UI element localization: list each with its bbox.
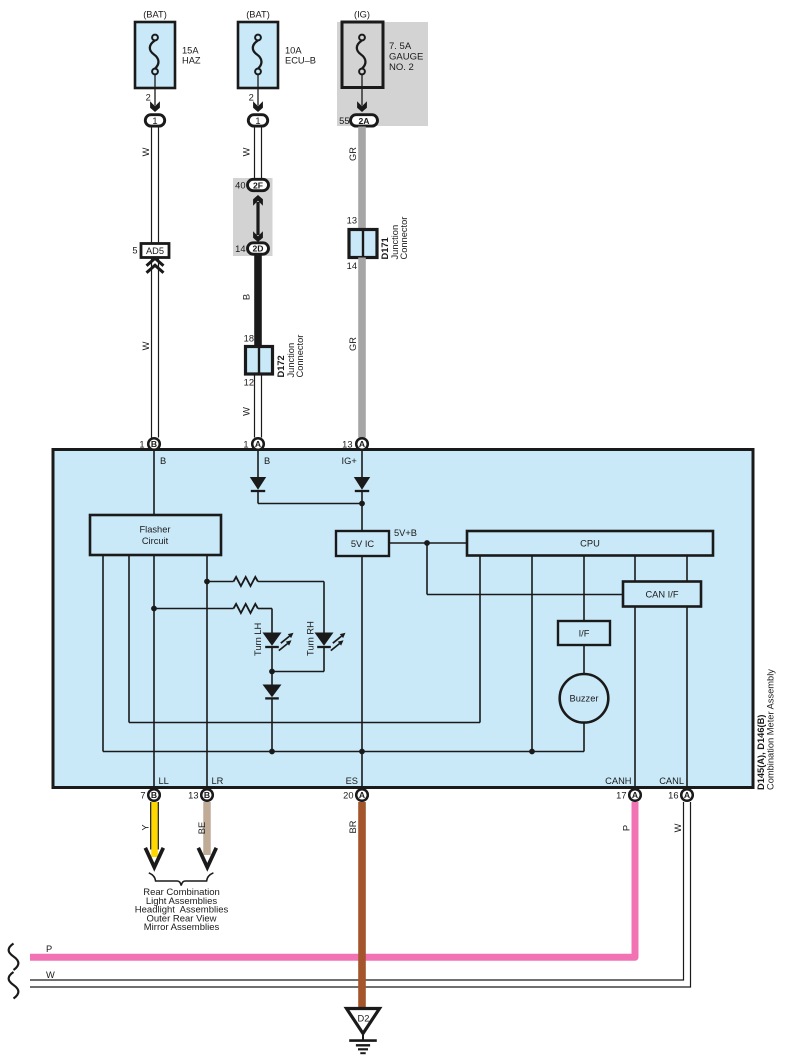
- svg-text:I/F: I/F: [579, 629, 590, 639]
- continuation squiggle W: [9, 972, 19, 999]
- diode D-IG: [354, 477, 370, 491]
- svg-text:5V+B: 5V+B: [394, 528, 417, 538]
- svg-text:13: 13: [347, 216, 357, 226]
- svg-text:BE: BE: [197, 822, 207, 834]
- connector 2D pin 14: [235, 243, 268, 254]
- svg-text:B: B: [160, 456, 166, 466]
- wire LEDs to diode D3: [272, 647, 324, 685]
- wire flasher to pin LL: [153, 555, 155, 787]
- shaded background IG circuit: [337, 22, 428, 126]
- resistor R-RH: [207, 577, 324, 633]
- flasher circuit block: [90, 515, 221, 555]
- svg-text:GAUGE: GAUGE: [389, 52, 423, 63]
- svg-text:A: A: [684, 790, 690, 800]
- svg-text:W: W: [141, 147, 151, 156]
- diode D3: [263, 685, 282, 699]
- svg-text:D145(A), D146(B): D145(A), D146(B): [756, 715, 766, 790]
- connector 2F pin 40: [235, 179, 268, 190]
- svg-text:B: B: [204, 790, 210, 800]
- svg-text:A: A: [359, 439, 365, 449]
- wire CPU to common bus: [531, 556, 533, 752]
- wire CPU to flasher return: [129, 555, 480, 723]
- svg-text:D2: D2: [358, 1014, 370, 1024]
- wire I/F to buzzer: [583, 645, 585, 674]
- connector cavity 2A pin 55: [339, 115, 377, 126]
- wire diode D-IG to 5V IC: [361, 491, 363, 531]
- svg-text:Circuit: Circuit: [142, 536, 169, 546]
- connector arrow into 1: [253, 101, 263, 112]
- wire GR from 2A to D171: [348, 127, 362, 231]
- svg-text:ES: ES: [346, 776, 358, 786]
- svg-text:14: 14: [235, 244, 245, 254]
- wire W from D172 to meter pin 1(A): [242, 374, 262, 438]
- CAN I/F block: [623, 582, 701, 607]
- LED Turn LH: [253, 623, 294, 656]
- shield chevrons below AD5: [147, 258, 164, 273]
- wire Y from pin LL: [141, 802, 159, 857]
- junction connector D172: [244, 334, 305, 388]
- pin 13(A) top: [342, 438, 368, 450]
- brace to assemblies: [149, 873, 214, 886]
- node ES-bus: [359, 749, 365, 755]
- wire label W lower column 1: [141, 341, 151, 350]
- wire CAN I/F to pin CANH: [634, 607, 636, 788]
- svg-text:W: W: [141, 341, 151, 350]
- node on 5V+B: [424, 540, 430, 546]
- svg-text:ECU–B: ECU–B: [285, 56, 316, 66]
- wire flasher to common bus (left): [103, 555, 584, 752]
- svg-text:13: 13: [188, 791, 198, 801]
- svg-text:5V IC: 5V IC: [351, 539, 375, 549]
- svg-text:HAZ: HAZ: [182, 56, 201, 66]
- wire W from pin CANL: [30, 802, 691, 987]
- node CPU-bus: [529, 749, 535, 755]
- node at 5V feed junction: [359, 501, 365, 507]
- combination meter assembly box: [53, 450, 753, 788]
- svg-text:W: W: [673, 823, 683, 832]
- svg-text:Y: Y: [141, 824, 151, 830]
- svg-text:CPU: CPU: [580, 539, 600, 549]
- svg-text:17: 17: [616, 791, 626, 801]
- wire CPU to CANL driver: [686, 556, 688, 582]
- svg-text:7. 5A: 7. 5A: [389, 41, 412, 52]
- svg-text:P: P: [46, 944, 52, 954]
- svg-text:LR: LR: [212, 776, 224, 786]
- svg-text:Turn RH: Turn RH: [306, 621, 316, 656]
- label D145(A), D146(B) Combination Meter Assembly: [756, 669, 776, 790]
- svg-text:5: 5: [132, 246, 137, 256]
- node LR-resistor tap: [204, 579, 210, 585]
- svg-text:10A: 10A: [285, 46, 302, 56]
- svg-text:2A: 2A: [359, 116, 370, 126]
- wire CPU to I/F: [583, 556, 585, 622]
- svg-text:2: 2: [146, 92, 151, 102]
- svg-text:B: B: [151, 439, 157, 449]
- resistor R-LH: [154, 604, 272, 633]
- connector cavity 1 (HAZ): [145, 115, 164, 126]
- pin 1(A) top: [243, 438, 263, 450]
- wire fuse F2 pin 2: [249, 74, 258, 105]
- wire 5V IC to pin ES: [361, 556, 363, 787]
- svg-text:Turn LH: Turn LH: [253, 623, 263, 656]
- net B (pin 1B) internal: [154, 451, 166, 515]
- arrowhead wire Y: [145, 848, 163, 868]
- wire W from fuse HAZ to AD5: [141, 127, 159, 244]
- wire from diode D-B to node 5V feed: [258, 491, 362, 504]
- svg-text:1: 1: [243, 440, 248, 450]
- connector AD5 pin 5: [132, 244, 169, 258]
- svg-text:Buzzer: Buzzer: [570, 694, 599, 704]
- net IG+ (pin 13A) internal: [342, 451, 363, 477]
- svg-text:B: B: [151, 790, 157, 800]
- svg-text:(IG): (IG): [354, 10, 370, 20]
- svg-text:20: 20: [343, 791, 353, 801]
- pin 1(B) top: [139, 438, 159, 450]
- regulator 5V IC: [336, 531, 389, 556]
- pin labels bottom inside: [159, 776, 685, 786]
- wire diode D3 to common bus: [271, 698, 273, 751]
- shaded background 2F-2D connector block: [233, 178, 273, 256]
- wire 5V+B branch to CAN I/F: [427, 543, 623, 595]
- svg-text:CANH: CANH: [605, 776, 631, 786]
- svg-text:1: 1: [255, 116, 260, 126]
- svg-text:GR: GR: [348, 147, 358, 161]
- pin 16(A) CANL bottom: [668, 789, 693, 801]
- fuse F1 15A HAZ: [135, 10, 201, 89]
- I/F block: [558, 621, 610, 645]
- svg-text:D172: D172: [276, 355, 286, 377]
- svg-text:1: 1: [152, 116, 157, 126]
- svg-text:(BAT): (BAT): [143, 10, 167, 20]
- svg-text:NO. 2: NO. 2: [389, 62, 414, 73]
- svg-text:A: A: [359, 790, 365, 800]
- svg-text:18: 18: [244, 334, 254, 344]
- wire buzzer to common bus: [583, 723, 585, 752]
- svg-text:1: 1: [139, 440, 144, 450]
- svg-text:W: W: [242, 147, 252, 156]
- svg-text:2D: 2D: [253, 244, 264, 254]
- label rear combination assemblies: [135, 887, 229, 933]
- wire flasher to pin LR: [206, 555, 208, 787]
- pin 7(B) LL bottom: [140, 789, 159, 801]
- svg-text:14: 14: [347, 261, 357, 271]
- svg-text:CANL: CANL: [659, 776, 684, 786]
- LED Turn RH: [306, 621, 346, 656]
- svg-text:IG+: IG+: [342, 456, 357, 466]
- svg-text:Mirror Assemblies: Mirror Assemblies: [144, 922, 220, 933]
- svg-text:GR: GR: [348, 337, 358, 351]
- svg-text:Combination Meter Assembly: Combination Meter Assembly: [766, 669, 776, 790]
- svg-text:B: B: [242, 294, 252, 300]
- svg-text:Flasher: Flasher: [139, 525, 170, 535]
- net B (pin 1A) internal: [258, 451, 270, 477]
- wire W from ECU-B fuse to 2F: [242, 127, 262, 180]
- connector arrow into 1: [150, 101, 160, 112]
- svg-text:12: 12: [244, 378, 254, 388]
- fuse F2 10A ECU-B: [238, 10, 316, 89]
- svg-text:B: B: [264, 456, 270, 466]
- node D3-bus: [269, 749, 275, 755]
- svg-text:(BAT): (BAT): [246, 10, 270, 20]
- fuse F3 7.5A GAUGE NO.2: [342, 10, 423, 88]
- wire GR from D171 to meter pin 13(A): [348, 258, 362, 438]
- svg-text:A: A: [632, 790, 638, 800]
- svg-text:40: 40: [235, 181, 245, 191]
- buzzer BZ1: [560, 674, 609, 723]
- svg-text:D171: D171: [380, 237, 390, 259]
- pin 13(B) LR bottom: [188, 789, 213, 801]
- node LED join: [269, 669, 275, 675]
- svg-text:A: A: [255, 439, 261, 449]
- wire fuse F1 pin 2: [146, 74, 155, 105]
- svg-text:AD5: AD5: [146, 246, 164, 256]
- junction connector D171: [347, 216, 409, 272]
- connector cavity 1 (ECU-B): [248, 115, 267, 126]
- svg-text:7: 7: [140, 791, 145, 801]
- svg-text:CAN I/F: CAN I/F: [645, 590, 678, 600]
- wire P from pin CANH: [30, 802, 635, 957]
- wire CPU to CANH driver: [634, 556, 636, 582]
- svg-text:P: P: [622, 825, 632, 831]
- wire BE from pin LR: [197, 802, 207, 855]
- ground D2: [347, 1009, 380, 1054]
- wire W from AD5 to meter pin 1(B): [152, 258, 159, 438]
- svg-text:2F: 2F: [253, 180, 263, 190]
- wire fuse F3 to 2A: [361, 74, 363, 105]
- node LL-resistor tap: [151, 606, 157, 612]
- wire 5V+B from 5V IC to CPU: [389, 528, 467, 543]
- in-harness link 2F to 2D: [253, 195, 263, 242]
- svg-text:13: 13: [342, 440, 352, 450]
- svg-text:Connector: Connector: [399, 217, 409, 260]
- svg-text:W: W: [242, 407, 252, 416]
- wire CAN I/F to pin CANL: [686, 607, 688, 788]
- svg-text:LL: LL: [159, 776, 169, 786]
- svg-text:2: 2: [249, 92, 254, 102]
- wire BR from pin ES to ground: [348, 802, 362, 1009]
- diode D-B: [250, 477, 266, 491]
- svg-text:W: W: [46, 970, 55, 980]
- svg-text:BR: BR: [348, 820, 358, 833]
- connector arrow into 2A: [357, 101, 367, 112]
- pin 20(A) ES bottom: [343, 789, 368, 801]
- svg-text:Connector: Connector: [295, 335, 305, 378]
- arrowhead wire BE: [198, 848, 216, 868]
- CPU U1: [467, 531, 713, 556]
- wire B (black) from 2D to D172: [242, 254, 259, 347]
- svg-text:55: 55: [339, 116, 349, 126]
- pin 17(A) CANH bottom: [616, 789, 641, 801]
- continuation squiggle P: [9, 944, 19, 971]
- svg-text:15A: 15A: [182, 46, 199, 56]
- svg-text:16: 16: [668, 791, 678, 801]
